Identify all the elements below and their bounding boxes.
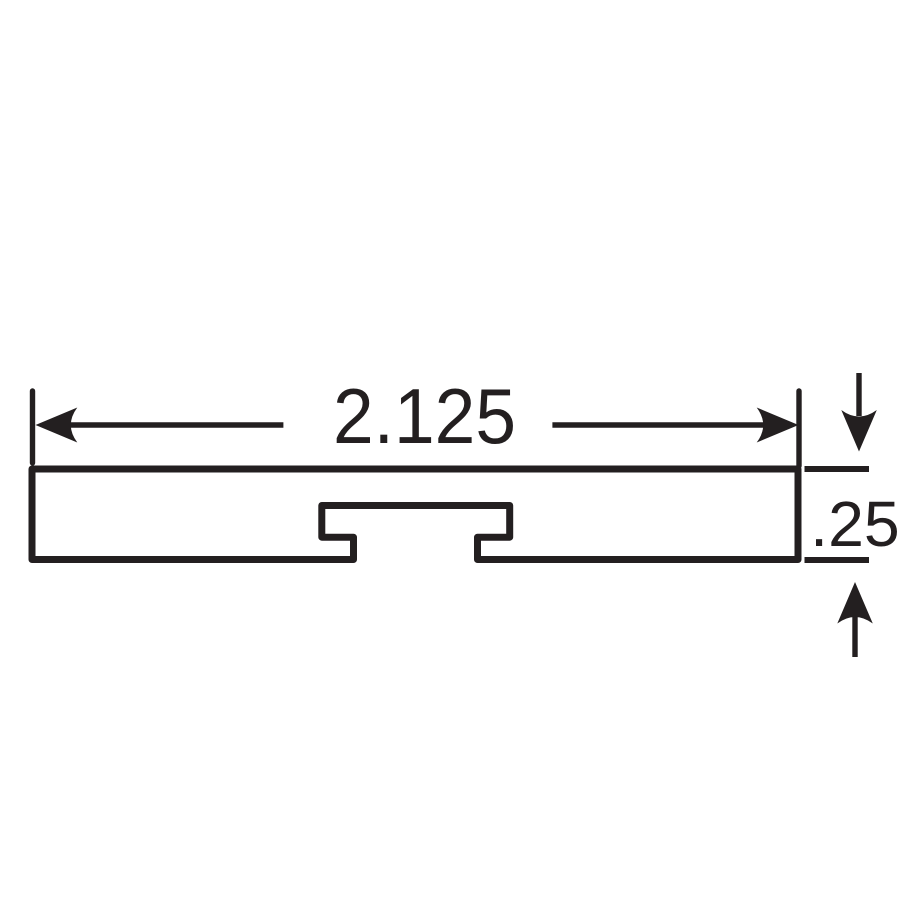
svg-text:2.125: 2.125 (333, 372, 516, 460)
profile outline (bar cross-section with T-slot) (32, 469, 798, 560)
down arrow shaft (856, 373, 861, 416)
up arrowhead (837, 582, 873, 624)
arrowhead right (757, 408, 799, 443)
extension line right (796, 391, 801, 466)
dimension line 2.125 right segment (552, 422, 766, 427)
dimension line 2.125 left segment (68, 422, 283, 427)
arrowhead left (36, 408, 78, 443)
down arrowhead (841, 410, 877, 452)
tick top right (805, 466, 870, 472)
up arrow shaft (852, 617, 857, 657)
tick bottom right (805, 557, 870, 563)
svg-text:.25: .25 (810, 488, 900, 560)
extension line left (30, 391, 35, 463)
